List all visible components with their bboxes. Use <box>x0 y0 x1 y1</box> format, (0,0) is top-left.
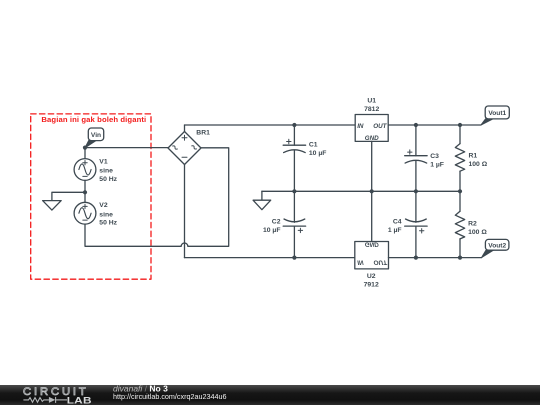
label U2 7912 <box>364 273 379 288</box>
svg-text:http://circuitlab.com/cxrq2au2: http://circuitlab.com/cxrq2au2344u6 <box>113 392 226 401</box>
pin labels U2 IN OUT GND (mirrored) <box>357 241 388 266</box>
svg-text:IN: IN <box>357 123 364 130</box>
node U1/U2 GND mid junction <box>370 189 374 193</box>
svg-text:V2: V2 <box>99 202 108 209</box>
svg-text:sine: sine <box>99 211 113 218</box>
svg-text:C2: C2 <box>272 218 281 225</box>
node R1 top junction <box>458 123 462 127</box>
wire U2 OUT to Vout2 <box>389 257 482 259</box>
label U1 7812 <box>364 98 379 113</box>
svg-text:100 Ω: 100 Ω <box>468 229 487 236</box>
resistor R2 <box>455 191 464 257</box>
label V2 sine 50 Hz <box>99 202 117 226</box>
pin labels U1 IN OUT GND <box>357 123 387 142</box>
red dashed region box <box>31 114 151 279</box>
label C3 1 uF <box>430 153 444 169</box>
svg-text:10 µF: 10 µF <box>309 150 327 157</box>
label C4 1 uF <box>388 218 402 234</box>
op-amp U1 7812 regulator <box>355 115 388 192</box>
label V1 sine 50 Hz <box>99 158 117 182</box>
label R2 100 Ohm <box>468 220 487 236</box>
op-amp U2 7912 regulator (flipped) <box>355 191 389 269</box>
node C4 bottom junction <box>414 256 418 260</box>
wire - rail BR1 to U2 IN <box>185 257 355 259</box>
svg-text:7912: 7912 <box>364 282 379 289</box>
logo resistor-diode squiggle <box>23 397 67 403</box>
flag Vin <box>85 128 104 148</box>
svg-text:Bagian ini gak boleh diganti: Bagian ini gak boleh diganti <box>41 115 146 124</box>
svg-text:sine: sine <box>99 168 113 175</box>
svg-text:R1: R1 <box>469 152 478 159</box>
label R1 100 Ohm <box>469 152 488 168</box>
ground (left) <box>43 201 62 211</box>
wire V1 bottom to V2 top <box>84 180 86 202</box>
svg-text:50 Hz: 50 Hz <box>99 220 117 227</box>
svg-text:Vout2: Vout2 <box>488 242 506 249</box>
bridge rectifier BR1 <box>168 132 201 165</box>
wire BR1 top stub to + rail <box>184 125 186 132</box>
wire Vin node to BR1 left <box>85 147 168 149</box>
svg-text:7812: 7812 <box>364 106 379 113</box>
svg-text:Vin: Vin <box>91 132 101 139</box>
svg-text:C4: C4 <box>393 218 402 225</box>
wire V1 top to Vin node <box>84 148 86 159</box>
wire BR1 bottom to - rail <box>184 165 186 258</box>
label C2 10 uF <box>263 218 281 234</box>
svg-text:C3: C3 <box>430 153 439 160</box>
label C1 10 uF <box>309 141 327 157</box>
wire GND mid rail <box>262 190 460 192</box>
wire + rail BR1 to U1 IN <box>185 124 356 126</box>
flag Vout2 <box>482 239 509 257</box>
svg-text:1 µF: 1 µF <box>430 161 444 168</box>
svg-text:OUT: OUT <box>373 123 387 130</box>
wire V2 bottom down and right to bridge return (with hop) <box>85 148 229 247</box>
node C3 bottom junction <box>414 189 418 193</box>
svg-text:BR1: BR1 <box>196 130 210 137</box>
svg-text:R2: R2 <box>468 220 477 227</box>
svg-text:U1: U1 <box>367 98 376 105</box>
svg-text:GND: GND <box>365 135 379 142</box>
svg-text:Vout1: Vout1 <box>488 110 506 117</box>
node C1-C2 mid junction <box>292 189 296 193</box>
wire U1 OUT to Vout1 <box>388 124 481 126</box>
node C3 top junction <box>414 123 418 127</box>
capacitor C1 <box>283 125 305 191</box>
svg-text:1 µF: 1 µF <box>388 227 402 234</box>
capacitor C2 <box>283 191 305 257</box>
svg-text:U2: U2 <box>367 273 376 280</box>
node C2 bottom junction <box>292 256 296 260</box>
node R1-R2 mid junction <box>458 189 462 193</box>
source V1 <box>74 159 96 181</box>
svg-text:IN: IN <box>357 258 364 265</box>
svg-text:OUT: OUT <box>374 258 388 265</box>
node R2 bottom junction <box>458 256 462 260</box>
resistor R1 <box>455 125 464 191</box>
flag Vout1 <box>481 106 509 125</box>
svg-text:GND: GND <box>365 241 379 248</box>
capacitor C3 <box>405 125 427 191</box>
svg-text:C1: C1 <box>309 141 318 148</box>
svg-text:V1: V1 <box>99 158 108 165</box>
ground (middle) <box>253 191 271 209</box>
svg-text:50 Hz: 50 Hz <box>99 176 117 183</box>
source V2 <box>74 202 96 224</box>
svg-text:100 Ω: 100 Ω <box>469 161 488 168</box>
footer bar <box>0 385 540 405</box>
node Vin junction dot <box>83 146 87 150</box>
node V1-V2-ground junction <box>83 190 87 194</box>
svg-text:10 µF: 10 µF <box>263 227 281 234</box>
capacitor C4 <box>405 191 427 257</box>
svg-text:LAB: LAB <box>67 396 92 405</box>
wire junction to left ground <box>52 192 85 200</box>
node C1 top junction <box>292 123 296 127</box>
